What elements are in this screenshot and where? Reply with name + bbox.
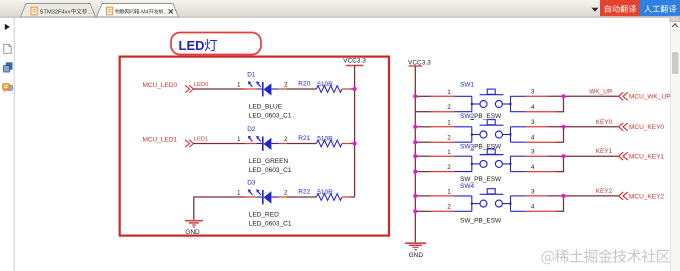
wire VCC rail to SW4 pin 1 (415, 195, 454, 197)
SW4 reference designator (460, 183, 474, 190)
svg-text:2: 2 (447, 135, 451, 142)
svg-text:VCC3.3: VCC3.3 (408, 59, 431, 66)
wire D1 pin 2 to R20 (287, 88, 316, 90)
browser tab bar background (0, 0, 680, 18)
svg-text:3: 3 (531, 149, 535, 156)
resistor R20 510R (298, 81, 350, 93)
svg-text:D1: D1 (247, 72, 256, 79)
wire LED1 to D2 pin 1 (193, 143, 244, 145)
LED D2 reference designator (247, 126, 256, 133)
svg-text:...: ... (164, 9, 168, 15)
resistor R21 510R (298, 135, 350, 147)
svg-text:WK_UP: WK_UP (589, 88, 612, 95)
active tab: IoT M4 dev board schematic (97, 4, 179, 18)
svg-text:SW2PB_ESW: SW2PB_ESW (460, 113, 502, 120)
junction dot rail/SW2 pin 2 (413, 140, 417, 144)
wire SW2 pin 4 up to pin 3 net (526, 127, 564, 142)
junction dot rail/SW4 pin 2 (413, 209, 417, 213)
sidebar collapse arrow icon (5, 24, 10, 30)
svg-text:SW_PB_ESW: SW_PB_ESW (460, 176, 502, 183)
SW4 value label (460, 218, 502, 225)
svg-text:R22: R22 (298, 189, 310, 196)
svg-text:-M4: -M4 (140, 9, 149, 15)
svg-text:LED_BLUE: LED_BLUE (249, 104, 283, 111)
wire R20 to VCC3.3 rail (351, 88, 355, 90)
svg-text:LED_RED: LED_RED (249, 212, 279, 219)
left sidebar separator (13, 18, 15, 271)
ground symbol GND (switch section) (405, 243, 426, 259)
LED D1 (LED_BLUE) (248, 81, 279, 96)
svg-text:2: 2 (284, 190, 288, 197)
svg-text:510R: 510R (317, 136, 333, 143)
auto-translate button (red) (600, 0, 640, 16)
net label KEY1 (596, 148, 613, 155)
LED D3 reference designator (247, 180, 256, 187)
svg-text:STM32F4xx: STM32F4xx (40, 9, 71, 15)
svg-text:KEY1: KEY1 (596, 148, 613, 155)
junction dot rail/SW2 pin 1 (413, 125, 417, 129)
svg-text:KEY0: KEY0 (596, 119, 613, 126)
wire R21 to VCC3.3 rail (351, 143, 355, 145)
svg-text:3: 3 (531, 119, 535, 126)
push-button switch SW4 (455, 189, 527, 212)
LED D1 reference designator (247, 72, 256, 79)
svg-text:LED_0603_C1: LED_0603_C1 (249, 167, 292, 174)
wire SW2 pin 3 to net port (526, 126, 618, 128)
svg-text:D2: D2 (247, 126, 256, 133)
wire VCC rail to SW2 pin 1 (415, 126, 454, 128)
LED D2 pin 1 (237, 136, 256, 143)
wire VCC rail to SW3 pin 2 (415, 171, 454, 173)
svg-text:MCU_KEY2: MCU_KEY2 (629, 193, 664, 200)
svg-text:1: 1 (447, 89, 451, 96)
red selection rectangle around LED circuit (120, 57, 389, 236)
wire VCC rail to SW2 pin 2 (415, 141, 454, 143)
net label KEY2 (596, 188, 613, 195)
manual-translate button (blue) (640, 0, 680, 16)
svg-text:2: 2 (447, 104, 451, 111)
svg-text:R20: R20 (298, 81, 310, 88)
svg-text:2: 2 (447, 204, 451, 211)
svg-text:1: 1 (237, 82, 241, 89)
wire SW1 pin 4 up to pin 3 net (526, 96, 564, 111)
junction dot rail/R21 (353, 141, 357, 145)
net port MCU_KEY0 (619, 123, 665, 131)
svg-text:LED_0603_C1: LED_0603_C1 (249, 221, 292, 228)
svg-text:510R: 510R (317, 189, 333, 196)
svg-text:1: 1 (447, 119, 451, 126)
svg-text:SW_PB_ESW: SW_PB_ESW (460, 218, 502, 225)
SW1 value overlapped by SW2 ref (460, 113, 502, 120)
svg-text:D3: D3 (247, 180, 256, 187)
svg-text:4: 4 (531, 164, 535, 171)
LED D3 (LED_RED) (248, 189, 279, 204)
svg-text:510R: 510R (317, 81, 333, 88)
SW1 reference designator (460, 82, 474, 89)
SW3 value label (460, 176, 502, 183)
svg-text:GND: GND (409, 252, 424, 259)
LED D2 pin 2 (279, 136, 288, 143)
net label KEY0 (596, 119, 613, 126)
wire SW4 pin 4 up to pin 3 net (526, 196, 564, 211)
svg-text:LED: LED (179, 38, 205, 53)
net port MCU_LED0 (143, 82, 194, 93)
LED D3 value labels (249, 212, 292, 228)
net port MCU_KEY2 (619, 192, 665, 200)
LED D2 (LED_GREEN) (248, 136, 279, 151)
svg-text:2: 2 (284, 136, 288, 143)
schematic sheet title box "LED lamp" (171, 33, 261, 55)
svg-text:4: 4 (531, 134, 535, 141)
junction dot rail/R20 (353, 87, 357, 91)
SW4 pin number labels (447, 188, 535, 210)
svg-text:1: 1 (447, 149, 451, 156)
wire VCC rail to SW1 pin 1 (415, 95, 454, 97)
push-button switch SW3 (455, 149, 527, 172)
SW2 value overlapped by SW3 ref (460, 143, 502, 150)
svg-text:VCC3.3: VCC3.3 (343, 58, 366, 65)
junction dot rail/SW3 pin 2 (413, 170, 417, 174)
svg-text:3: 3 (531, 89, 535, 96)
wire SW4 pin 3 to net port (526, 195, 618, 197)
wire SW1 pin 3 to net port (526, 95, 618, 97)
LED D1 value labels (249, 104, 292, 120)
wire R22 to VCC3.3 rail (351, 196, 355, 198)
svg-text:SW4: SW4 (460, 183, 474, 190)
wire LED0 to D1 pin 1 (193, 88, 244, 90)
resistor R22 510R (298, 189, 350, 201)
VCC3.3 power symbol and rail (LED section) (343, 58, 366, 197)
net label WK_UP (589, 88, 612, 95)
inactive tab: STM32F4xx reference manual (21, 4, 96, 18)
SW3 pin number labels (447, 149, 535, 171)
junction dot rail/SW1 pin 1 (413, 94, 417, 98)
svg-text:1: 1 (237, 136, 241, 143)
svg-text:LED_0603_C1: LED_0603_C1 (249, 113, 292, 120)
LED D2 value labels (249, 158, 292, 174)
svg-text:SW3PB_ESW: SW3PB_ESW (460, 143, 502, 150)
svg-text:MCU_KEY1: MCU_KEY1 (629, 154, 664, 161)
sidebar page/document icon (4, 44, 11, 53)
svg-text:4: 4 (531, 104, 535, 111)
wire VCC rail to SW3 pin 1 (415, 155, 454, 157)
LED D3 pin 2 (279, 190, 288, 197)
svg-text:LED0: LED0 (194, 82, 209, 88)
svg-text:LED_GREEN: LED_GREEN (249, 158, 289, 165)
LED D3 pin 1 (237, 190, 256, 197)
net label LED0 (194, 82, 209, 88)
wire GND to D3 pin 1 (194, 197, 245, 220)
VCC3.3 power symbol and rail (switch section) (408, 59, 431, 242)
wire D2 pin 2 to R21 (287, 143, 316, 145)
wire SW3 pin 4 up to pin 3 net (526, 156, 564, 171)
svg-text:GND: GND (185, 229, 200, 236)
wire SW3 pin 3 to net port (526, 155, 618, 157)
svg-text:SW1: SW1 (460, 82, 474, 89)
svg-text:MCU_LED0: MCU_LED0 (143, 82, 178, 89)
LED D1 pin 2 (279, 82, 288, 89)
right scrollbar (670, 16, 680, 271)
svg-text:MCU_WK_UP: MCU_WK_UP (629, 94, 671, 101)
sidebar layers/copy icon (4, 63, 12, 72)
wire VCC rail to SW4 pin 2 (415, 210, 454, 212)
junction dot KEY1 (561, 154, 565, 158)
SW1 pin number labels (447, 89, 535, 111)
wire D3 pin 2 to R22 (287, 196, 316, 198)
watermark (542, 249, 670, 264)
push-button switch SW1 (455, 89, 527, 112)
junction dot KEY0 (561, 125, 565, 129)
ground symbol GND (LED section) (185, 221, 203, 237)
svg-text:2: 2 (284, 82, 288, 89)
junction dot rail/SW3 pin 1 (413, 154, 417, 158)
net label LED1 (194, 137, 209, 143)
svg-text:MCU_KEY0: MCU_KEY0 (629, 124, 664, 131)
junction dot rail/SW4 pin 1 (413, 194, 417, 198)
svg-text:LED1: LED1 (194, 137, 209, 143)
svg-text:...: ... (87, 9, 92, 15)
push-button switch SW2 (455, 120, 527, 143)
net port MCU_WK_UP (619, 92, 671, 100)
svg-text:2: 2 (447, 164, 451, 171)
net port MCU_LED1 (143, 137, 194, 148)
net port MCU_KEY1 (619, 152, 665, 160)
svg-text:KEY2: KEY2 (596, 188, 613, 195)
svg-text:1: 1 (447, 189, 451, 196)
LED D1 pin 1 (237, 82, 256, 89)
junction dot WK_UP (561, 94, 565, 98)
svg-text:MCU_LED1: MCU_LED1 (143, 137, 178, 144)
SW2 pin number labels (447, 119, 535, 141)
svg-text:3: 3 (531, 188, 535, 195)
svg-text:R21: R21 (298, 135, 310, 142)
wire VCC rail to SW1 pin 2 (415, 111, 454, 113)
sidebar comments icon (3, 84, 13, 92)
svg-text:1: 1 (237, 190, 241, 197)
toolbar dropdown arrow (592, 8, 599, 12)
junction dot KEY2 (561, 194, 565, 198)
svg-text:4: 4 (531, 204, 535, 211)
